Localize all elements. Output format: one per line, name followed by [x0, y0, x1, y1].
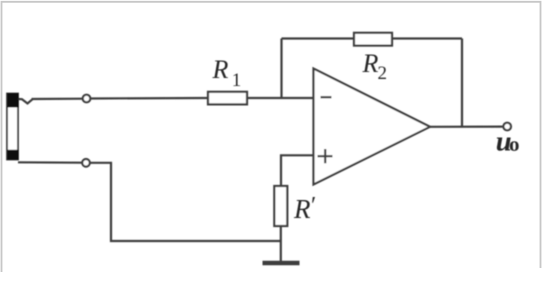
svg-text:R: R: [293, 194, 311, 224]
wire bottom return: terminal 2 to R' bottom: [18, 161, 82, 164]
svg-text:R: R: [362, 49, 379, 78]
source transducer top contact: [7, 93, 19, 107]
wire from terminal 2 to corner and down: [90, 163, 281, 241]
plus sign non-inverting input: [318, 149, 333, 163]
svg-text:2: 2: [378, 63, 388, 84]
wire output: [430, 125, 503, 127]
minus sign inverting input: [321, 96, 332, 98]
wire feedback down to output: [461, 39, 463, 127]
resistor R1: [208, 92, 247, 105]
wire squiggle from source top terminal: [18, 99, 33, 104]
label R': [293, 193, 316, 224]
terminal input circle 2: [82, 159, 90, 167]
resistor R': [274, 186, 287, 226]
wire feedback top right segment: [392, 37, 462, 39]
label R1: [212, 55, 242, 91]
wire feedback top left segment: [282, 37, 355, 39]
svg-text:′: ′: [310, 193, 316, 219]
wire feedback tap up: [280, 39, 282, 99]
terminal output circle: [503, 123, 511, 131]
svg-text:1: 1: [232, 70, 242, 91]
ground: [263, 261, 300, 266]
op-amp U1 triangle: [314, 69, 431, 185]
svg-text:R: R: [212, 55, 229, 84]
wire terminal to R1: [90, 97, 208, 100]
wire R' to ground: [280, 226, 282, 261]
wire top input segment to terminal: [32, 98, 83, 101]
label R2: [362, 49, 388, 84]
wire non-inverting input: [281, 155, 314, 186]
wire R1 to inverting input: [247, 97, 314, 99]
resistor R2: [354, 33, 392, 46]
source transducer X1 body: [7, 94, 18, 160]
terminal input circle 1: [83, 95, 91, 103]
source transducer bottom contact: [7, 150, 19, 160]
label uo: [496, 127, 520, 158]
svg-text:o: o: [509, 132, 520, 156]
